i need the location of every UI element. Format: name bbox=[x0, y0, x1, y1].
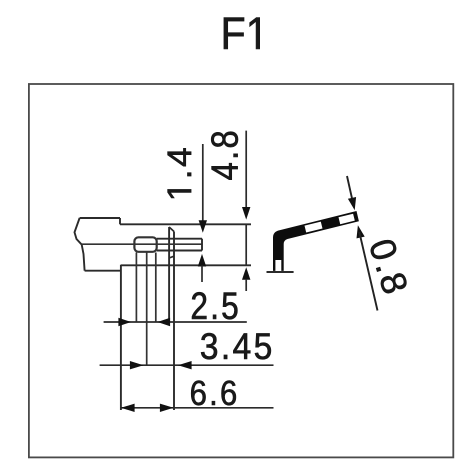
dim 2.5 arrow up (slot) bbox=[198, 254, 206, 267]
dim 1.4 line bbox=[202, 144, 204, 222]
dim row1 arrow left bbox=[158, 318, 171, 326]
bent pin window 1 bbox=[305, 222, 323, 233]
block left edge / extension V1 bbox=[120, 265, 122, 410]
dim 4.8 text bbox=[211, 132, 238, 180]
dim 0.8 text bbox=[371, 240, 407, 293]
body mid seam line bbox=[82, 243, 202, 245]
dim row1 2.5 line bbox=[104, 321, 247, 323]
slot bottom line bbox=[157, 250, 202, 252]
mold lead line 1 bbox=[135, 253, 137, 323]
dim row2 arrow left bbox=[178, 361, 192, 369]
dim 4.8 arrow down bbox=[242, 207, 250, 220]
dim 3.45 text bbox=[201, 333, 271, 359]
dim row1 arrow right bbox=[118, 318, 131, 326]
dim row2 3.45 line bbox=[100, 364, 274, 366]
body bottom-left edge bbox=[85, 270, 121, 272]
body top edge lower + extension line bbox=[120, 223, 251, 225]
dim 4.8 mid line bbox=[245, 224, 247, 266]
dim 4.8 lower shaft bbox=[245, 279, 247, 291]
title F1 bbox=[224, 18, 260, 49]
body step bbox=[119, 218, 121, 224]
dim 4.8 line upper bbox=[245, 131, 247, 207]
dim row2 arrow right bbox=[130, 361, 144, 369]
body seam H4 + extension bbox=[121, 264, 251, 266]
dim 2.5 text bbox=[192, 292, 237, 319]
border frame bbox=[29, 84, 453, 457]
dim 0.8 arrow bottom bbox=[357, 225, 365, 238]
slot top line bbox=[157, 238, 202, 240]
dim 1.4 text bbox=[168, 148, 192, 198]
slot right edge bbox=[201, 239, 203, 251]
dim 0.8 leader bottom bbox=[359, 232, 377, 311]
dim 2.5 lower shaft bbox=[201, 266, 203, 283]
bent pin seat line bbox=[267, 271, 294, 273]
dim 6.6 text bbox=[191, 381, 236, 406]
bent pin window 2 bbox=[339, 214, 355, 225]
dim row3 arrow right bbox=[160, 404, 174, 412]
mold lead line 3 bbox=[155, 253, 157, 323]
body left break edge bbox=[75, 218, 85, 271]
body top edge upper bbox=[80, 217, 120, 219]
mold lead line 2 bbox=[146, 253, 148, 366]
dim 0.8 arrow top bbox=[348, 197, 356, 210]
dim row3 arrow left bbox=[121, 404, 135, 412]
dim row3 6.6 line bbox=[121, 407, 274, 409]
cap top chamfer bbox=[169, 227, 174, 232]
dim 1.4 arrow bbox=[199, 220, 207, 233]
bent pin hollow end bbox=[275, 260, 281, 271]
cap outer edge / extension V3 bbox=[173, 232, 175, 411]
contact box bbox=[134, 237, 156, 252]
block right edge / cap inner edge bbox=[168, 227, 170, 322]
dim 0.8 leader top bbox=[347, 176, 353, 202]
dim 4.8 arrow up bbox=[242, 267, 250, 280]
bent pin body bbox=[273, 211, 359, 271]
cap bottom chamfer bbox=[169, 256, 174, 258]
